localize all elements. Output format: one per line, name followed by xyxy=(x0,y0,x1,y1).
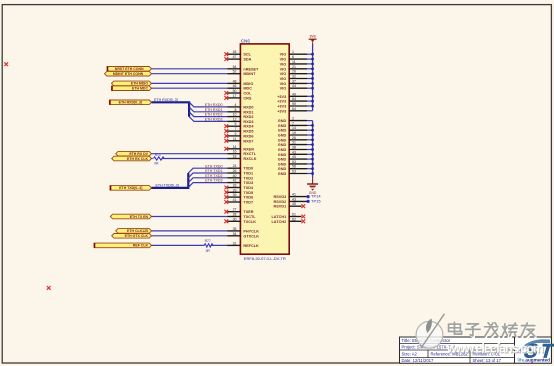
svg-text:30: 30 xyxy=(233,217,237,221)
svg-text:0R: 0R xyxy=(206,249,211,253)
pin 40 TXD2 (left) xyxy=(228,174,254,181)
svg-text:GND: GND xyxy=(278,119,287,123)
wire GND pin 14 to GND rail xyxy=(307,129,313,131)
svg-text:11: 11 xyxy=(233,137,237,141)
pin 41 RSVD3 (right) xyxy=(274,193,307,200)
bus entry + wire ETH TXD3 xyxy=(188,183,227,188)
resistor R77 0R (on REFCLK) xyxy=(152,239,228,253)
svg-text:54: 54 xyxy=(233,65,237,69)
wire VIO pin 11 to +3V3 rail xyxy=(307,63,313,65)
pin 39 TXD6 (left) xyxy=(228,193,254,200)
pin 11 VIO (right) xyxy=(280,60,307,67)
svg-text:35: 35 xyxy=(233,227,237,231)
svg-text:TXD1: TXD1 xyxy=(243,172,253,176)
pin 38 GND (right) xyxy=(278,146,307,153)
pin 26 TXD1 (left) xyxy=(228,169,254,176)
connector CN6 body xyxy=(240,44,289,254)
svg-text:24: 24 xyxy=(233,164,237,168)
no-connect X (floating, lower left) xyxy=(47,286,51,290)
pin 11 RXD7 (left) xyxy=(228,137,254,144)
resistor R71 0R (on RXCLK) xyxy=(152,153,228,165)
pin 16 RXCTL (left) xyxy=(228,150,257,157)
svg-text:12: 12 xyxy=(233,117,237,121)
pin 33 TXD4 (left) xyxy=(228,184,254,191)
svg-text:REF CLK: REF CLK xyxy=(133,244,149,248)
bus entry + wire ETH RXD1 xyxy=(189,107,227,112)
svg-text:63: 63 xyxy=(292,170,296,174)
svg-text:RXD7: RXD7 xyxy=(243,139,253,143)
pin 58 GND (right) xyxy=(278,165,307,172)
svg-text:11: 11 xyxy=(292,60,296,64)
pin 10 RXD2 (left) xyxy=(228,113,254,120)
svg-text:32: 32 xyxy=(292,75,296,79)
pin 12 RXD3 (left) xyxy=(228,117,254,124)
watermark logo circle xyxy=(416,314,444,349)
pin 19 GND (right) xyxy=(278,131,307,138)
net label ETH TXD3 xyxy=(205,179,222,183)
wire ETH MDIO to MDIO xyxy=(152,82,228,84)
svg-text:Sheet: 13 of 17: Sheet: 13 of 17 xyxy=(473,358,502,363)
wire GND pin 53 to GND rail xyxy=(307,163,313,165)
wire VIO pin 37 to +3V3 rail xyxy=(307,82,313,84)
svg-text:RXER: RXER xyxy=(243,147,254,151)
svg-text:MDIO: MDIO xyxy=(243,82,253,86)
bus entry + wire ETH RXD0 xyxy=(189,102,227,107)
svg-text:TXD4: TXD4 xyxy=(243,186,254,190)
wire VIO pin 26 to +3V3 rail xyxy=(307,73,313,75)
ST logo caption life.augmented xyxy=(518,357,551,362)
pin 44 VIO (right) xyxy=(280,84,307,91)
svg-text:VIO: VIO xyxy=(280,77,287,81)
no-connect X on pin 5 RXD4 xyxy=(224,124,228,128)
svg-text:REFCLK: REFCLK xyxy=(243,244,259,248)
svg-text:26: 26 xyxy=(292,70,296,74)
svg-text:RXCTL: RXCTL xyxy=(243,152,256,156)
svg-text:14: 14 xyxy=(233,145,237,149)
svg-text:17: 17 xyxy=(233,94,237,98)
svg-text:27: 27 xyxy=(233,208,237,212)
wire GND pin 63 to GND rail xyxy=(307,173,313,175)
svg-text:4: 4 xyxy=(235,103,237,107)
svg-text:6: 6 xyxy=(292,55,294,59)
svg-text:3V3: 3V3 xyxy=(310,35,316,39)
pin 4 RXD0 (left) xyxy=(228,103,254,110)
svg-text:59: 59 xyxy=(292,102,296,106)
svg-text:7: 7 xyxy=(235,127,237,131)
no-connect X on pin 30 TXCLK xyxy=(224,219,228,223)
svg-text:+3V3: +3V3 xyxy=(277,109,286,113)
svg-text:VIO: VIO xyxy=(280,72,287,76)
junctions on +3V3 rail xyxy=(311,53,313,107)
pin 54 +3V3 (right) xyxy=(277,97,307,104)
wire GND pin 43 to GND rail xyxy=(307,153,313,155)
svg-text:ETH RXD2: ETH RXD2 xyxy=(205,113,223,117)
refdes CN6 xyxy=(241,38,251,43)
svg-text:GND: GND xyxy=(278,158,287,162)
wire ETH GTX CLK to GTXCLK xyxy=(152,235,228,237)
svg-text:34: 34 xyxy=(233,232,237,236)
svg-text:ETH CLK125: ETH CLK125 xyxy=(127,229,148,233)
svg-text:8: 8 xyxy=(235,108,237,112)
svg-text:ETH RXD3: ETH RXD3 xyxy=(205,118,223,122)
wire GND pin 58 to GND rail xyxy=(307,168,313,170)
no-connect X on pin 27 TXER xyxy=(224,210,228,214)
net label ETH CLK125 xyxy=(116,229,152,234)
svg-text:RXD2: RXD2 xyxy=(243,115,253,119)
wire GND pin 31 to GND rail xyxy=(307,144,313,146)
test point TP15 on pin 43 RSVD2 xyxy=(307,198,322,203)
pin 50 COL (left) xyxy=(228,89,253,96)
svg-text:RXD6: RXD6 xyxy=(243,134,253,138)
svg-text:58: 58 xyxy=(292,165,296,169)
pin 9 RXD6 (left) xyxy=(228,132,254,139)
wire VIO pin 32 to +3V3 rail xyxy=(307,78,313,80)
svg-text:RXD1: RXD1 xyxy=(243,110,253,114)
svg-text:TXD5: TXD5 xyxy=(243,191,253,195)
wire GND rail vertical xyxy=(312,121,314,178)
wire GND pin 2 to GND rail xyxy=(307,120,313,122)
svg-text:GTXCLK: GTXCLK xyxy=(243,234,259,238)
svg-text:RSVD3: RSVD3 xyxy=(274,195,287,199)
svg-text:GND: GND xyxy=(278,143,287,147)
svg-text:ETH RXD[0..3]: ETH RXD[0..3] xyxy=(119,101,143,105)
svg-text:RXCLK: RXCLK xyxy=(243,157,256,161)
pin 7 GND (right) xyxy=(278,121,307,128)
pin 49 GND (right) xyxy=(278,155,307,162)
pin 21 VIO (right) xyxy=(280,65,307,72)
svg-text:39: 39 xyxy=(233,193,237,197)
svg-text:nRESET: nRESET xyxy=(243,67,259,71)
svg-text:GND: GND xyxy=(278,172,287,176)
net label ETH TX EN xyxy=(110,214,151,219)
svg-text:LATCH2: LATCH2 xyxy=(271,220,286,224)
pin 42 TXD3 (left) xyxy=(228,179,254,186)
svg-text:Size: A2: Size: A2 xyxy=(402,352,418,357)
svg-text:7: 7 xyxy=(292,121,294,125)
no-connect X on pin 33 TXD4 xyxy=(224,186,228,190)
svg-text:ETH RX CLK: ETH RX CLK xyxy=(127,157,148,161)
svg-text:PHYCLK: PHYCLK xyxy=(243,229,259,233)
svg-text:38: 38 xyxy=(292,146,296,150)
svg-text:GND: GND xyxy=(309,191,317,195)
svg-text:TXCLK: TXCLK xyxy=(243,220,256,224)
svg-text:TXD2: TXD2 xyxy=(243,176,253,180)
svg-text:9: 9 xyxy=(235,132,237,136)
pin 52 MDINT (left) xyxy=(228,70,257,77)
svg-text:0R: 0R xyxy=(154,162,159,166)
pin 45 SCL (left) xyxy=(228,50,252,57)
wire +3V3 pin 49 to +3V3 rail xyxy=(307,95,313,97)
svg-text:VIO: VIO xyxy=(280,87,287,91)
ST logo xyxy=(518,339,554,362)
no-connect X on pin 62 LATCH2 xyxy=(301,219,305,223)
svg-text:44: 44 xyxy=(292,84,296,88)
pin 43 GND (right) xyxy=(278,150,307,157)
no-connect X on pin 7 RXD5 xyxy=(224,129,228,133)
no-connect X on pin 9 RXD6 xyxy=(224,134,228,138)
pin 64 +3V3 (right) xyxy=(277,107,307,114)
svg-text:CRS: CRS xyxy=(243,96,251,100)
svg-text:14: 14 xyxy=(292,126,296,130)
svg-text:TXER: TXER xyxy=(243,210,253,214)
title block text: Date / Sheet xyxy=(402,358,502,363)
svg-text:ETH TXD2: ETH TXD2 xyxy=(205,174,222,178)
net label ETH GTX CLK xyxy=(112,234,152,239)
svg-text:28: 28 xyxy=(233,213,237,217)
svg-text:54: 54 xyxy=(292,97,296,101)
svg-text:2: 2 xyxy=(292,117,294,121)
bus entry + wire ETH TXD2 xyxy=(188,178,227,183)
net label ETH TXD2 xyxy=(205,174,222,178)
no-connect X on pin 50 COL xyxy=(224,91,228,95)
pin 34 GTXCLK (left) xyxy=(228,232,260,239)
svg-text:31: 31 xyxy=(292,141,296,145)
wire GND pin 38 to GND rail xyxy=(307,149,313,151)
pin 47 SDA (left) xyxy=(228,55,252,62)
wire +3V3 pin 64 to +3V3 rail xyxy=(307,110,313,112)
wire NRST ETH CONN to nRESET xyxy=(152,68,228,70)
net label ETH RX CLK xyxy=(112,156,152,161)
svg-text:RXD5: RXD5 xyxy=(243,130,253,134)
wire GND pin 19 to GND rail xyxy=(307,134,313,136)
no-connect X on pin 29 TXD5 xyxy=(224,190,228,194)
pin 28 TXCTL (left) xyxy=(228,213,257,220)
watermark www.elecfans.com xyxy=(446,342,545,357)
bus entry + wire ETH RXD3 xyxy=(189,117,227,122)
svg-text:47: 47 xyxy=(233,55,237,59)
net label NRST ETH CONN xyxy=(107,67,152,72)
wire +3V3 pin 59 to +3V3 rail xyxy=(307,105,313,107)
no-connect X on pin 61 LATCH1 xyxy=(301,215,305,219)
svg-text:TXD3: TXD3 xyxy=(243,181,253,185)
no-connect X on pin 41 TXD7 xyxy=(224,200,228,204)
svg-text:ETH RXD1: ETH RXD1 xyxy=(205,108,223,112)
net label ETH RXD1 xyxy=(205,108,223,112)
pin 14 GND (right) xyxy=(278,126,307,133)
pin 31 REFCLK (left) xyxy=(228,241,260,248)
wire GND pin 26 to GND rail xyxy=(307,139,313,141)
svg-text:R77: R77 xyxy=(205,239,211,243)
svg-text:53: 53 xyxy=(292,160,296,164)
svg-text:ETH TXD[0..3]: ETH TXD[0..3] xyxy=(119,186,142,190)
svg-text:41: 41 xyxy=(292,193,296,197)
net label ETH TXD1 xyxy=(205,169,222,173)
svg-text:TXD0: TXD0 xyxy=(243,167,253,171)
svg-text:TXCTL: TXCTL xyxy=(243,215,256,219)
svg-text:ETH TXD3: ETH TXD3 xyxy=(205,179,222,183)
wire ETH CLK125 to PHYCLK xyxy=(152,230,228,232)
junctions on GND rail xyxy=(311,124,313,175)
svg-text:RXD3: RXD3 xyxy=(243,120,253,124)
pin 2 GND (right) xyxy=(278,117,307,124)
wire MDINT ETH CONN to MDINT xyxy=(152,73,228,75)
no-connect X on pin 14 RXER xyxy=(224,147,228,151)
power symbol +3V3 xyxy=(309,35,317,45)
svg-text:ETH GTX CLK: ETH GTX CLK xyxy=(125,234,149,238)
svg-text:48: 48 xyxy=(233,79,237,83)
net label ETH MDC xyxy=(112,86,152,91)
svg-text:64: 64 xyxy=(292,107,296,111)
pin 54 nRESET (left) xyxy=(228,65,260,72)
svg-text:ETH MDIO: ETH MDIO xyxy=(131,82,148,86)
wire ETH RX DV to RXCTL xyxy=(152,153,228,155)
wire ETH TX EN to TXCTL xyxy=(152,216,228,218)
svg-text:31: 31 xyxy=(233,241,237,245)
svg-text:TXD7: TXD7 xyxy=(243,201,253,205)
svg-text:MDC: MDC xyxy=(243,87,252,91)
svg-text:50: 50 xyxy=(233,89,237,93)
wire VIO pin 44 to +3V3 rail xyxy=(307,87,313,89)
svg-text:49: 49 xyxy=(292,155,296,159)
pin 37 VIO (right) xyxy=(280,79,307,86)
svg-text:29: 29 xyxy=(233,188,237,192)
net label ETH RX DV xyxy=(116,151,152,156)
ground symbol GND xyxy=(307,178,318,196)
svg-text:43: 43 xyxy=(292,150,296,154)
value ERF8-30-07.0-L-DV-TR xyxy=(244,256,286,261)
pin 29 TXD5 (left) xyxy=(228,188,254,195)
svg-text:RXD0: RXD0 xyxy=(243,105,253,109)
svg-text:10: 10 xyxy=(233,113,237,117)
svg-text:45: 45 xyxy=(292,202,296,206)
svg-text:RSVD1: RSVD1 xyxy=(274,205,287,209)
svg-text:MDINT: MDINT xyxy=(243,72,256,76)
pin 31 GND (right) xyxy=(278,141,307,148)
svg-text:ETH RX DV: ETH RX DV xyxy=(129,152,148,156)
pin 14 RXER (left) xyxy=(228,145,255,152)
svg-text:ETH MDC: ETH MDC xyxy=(132,87,148,91)
pin 63 GND (right) xyxy=(278,170,307,177)
pin 62 LATCH2 (right) xyxy=(271,217,301,224)
svg-text:16: 16 xyxy=(233,150,237,154)
no-connect X on pin 45 SCL xyxy=(224,52,228,56)
svg-text:GND: GND xyxy=(278,138,287,142)
svg-text:43: 43 xyxy=(292,197,296,201)
wire +3V3 rail vertical xyxy=(312,45,314,111)
svg-text:MDINT ETH CONN: MDINT ETH CONN xyxy=(113,72,144,76)
svg-text:ETH TX EN: ETH TX EN xyxy=(130,215,149,219)
svg-text:www.elecfans.com: www.elecfans.com xyxy=(446,342,544,356)
pin 45 RSVD1 (right) xyxy=(274,202,302,209)
pin 59 +3V3 (right) xyxy=(277,102,307,109)
svg-text:1: 1 xyxy=(292,50,294,54)
pin 30 TXCLK (left) xyxy=(228,217,257,224)
pin 6 VIO (right) xyxy=(280,55,307,62)
svg-text:ETH TXD0: ETH TXD0 xyxy=(205,164,222,168)
svg-text:52: 52 xyxy=(233,70,237,74)
pin 35 PHYCLK (left) xyxy=(228,227,260,234)
no-connect X on pin 17 CRS xyxy=(224,96,228,100)
wire GND pin 49 to GND rail xyxy=(307,158,313,160)
pin 26 GND (right) xyxy=(278,136,307,143)
pin 32 VIO (right) xyxy=(280,75,307,82)
bus name text ETH TXD[0..3] xyxy=(156,183,179,187)
no-connect X on pin 47 SDA xyxy=(224,57,228,61)
svg-text:life.augmented: life.augmented xyxy=(518,357,551,362)
svg-text:46: 46 xyxy=(233,84,237,88)
svg-text:SCL: SCL xyxy=(243,53,251,57)
net label ETH TXD0 xyxy=(205,164,222,168)
svg-text:TXD6: TXD6 xyxy=(243,196,253,200)
wire +3V3 pin 54 to +3V3 rail xyxy=(307,100,313,102)
net label REF CLK xyxy=(94,243,152,248)
no-connect X (floating, left margin) xyxy=(4,62,8,66)
svg-text:62: 62 xyxy=(292,217,296,221)
pin 49 +3V3 (right) xyxy=(277,92,307,99)
title block text: Size / Reference / Revision xyxy=(402,352,501,357)
svg-text:61: 61 xyxy=(292,213,296,217)
svg-text:26: 26 xyxy=(292,136,296,140)
bus entry + wire ETH TXD0 xyxy=(188,168,227,173)
svg-text:SDA: SDA xyxy=(243,58,251,62)
pin 41 TXD7 (left) xyxy=(228,198,254,205)
title block text: Project xyxy=(402,345,459,350)
svg-text:GND: GND xyxy=(278,167,287,171)
net label ETH RXD0 xyxy=(205,103,223,107)
pin 53 GND (right) xyxy=(278,160,307,167)
svg-text:Date: 12/11/2017: Date: 12/11/2017 xyxy=(402,358,434,363)
title block frame xyxy=(400,337,552,363)
pin 18 RXCLK (left) xyxy=(228,155,257,162)
pin 26 VIO (right) xyxy=(280,70,307,77)
svg-text:+3V3: +3V3 xyxy=(277,95,286,99)
wire GND pin 7 to GND rail xyxy=(307,124,313,126)
svg-text:LATCH1: LATCH1 xyxy=(271,215,286,219)
bus label ETH TXD[0..3] xyxy=(110,186,152,191)
wire VIO pin 6 to +3V3 rail xyxy=(307,58,313,60)
pin 46 MDC (left) xyxy=(228,84,253,91)
svg-text:GND: GND xyxy=(278,162,287,166)
svg-text:41: 41 xyxy=(233,198,237,202)
pin 5 RXD4 (left) xyxy=(228,122,255,129)
pin 27 TXER (left) xyxy=(228,208,254,215)
net label ETH RXD3 xyxy=(205,118,223,122)
svg-text:49: 49 xyxy=(292,92,296,96)
svg-text:RSVD2: RSVD2 xyxy=(274,200,287,204)
no-connect X on pin 11 RXD7 xyxy=(224,139,228,143)
no-connect X on pin 45 RSVD1 xyxy=(301,204,305,208)
bus label ETH RXD[0..3] xyxy=(109,100,151,105)
svg-text:VIO: VIO xyxy=(280,82,287,86)
svg-text:ETH RXD0: ETH RXD0 xyxy=(205,103,223,107)
svg-text:18: 18 xyxy=(233,155,237,159)
pin 61 LATCH1 (right) xyxy=(271,213,301,220)
svg-text:R71: R71 xyxy=(155,153,161,157)
pin 1 VIO (right) xyxy=(280,50,307,57)
net label ETH RXD2 xyxy=(205,113,223,117)
svg-text:+3V3: +3V3 xyxy=(277,105,286,109)
svg-text:VIO: VIO xyxy=(280,53,287,57)
bus ETH TXD[0..3] horizontal+vertical xyxy=(152,173,189,188)
svg-text:37: 37 xyxy=(292,79,296,83)
pin 17 CRS (left) xyxy=(228,94,252,101)
svg-text:GND: GND xyxy=(278,134,287,138)
bus name text ETH RXD[0..3] xyxy=(154,98,178,102)
svg-text:26: 26 xyxy=(233,169,237,173)
svg-text:ETH TXD1: ETH TXD1 xyxy=(205,169,222,173)
test point TP14 on pin 41 RSVD3 xyxy=(307,194,322,199)
svg-text:GND: GND xyxy=(278,124,287,128)
net label ETH MDIO xyxy=(112,81,152,86)
bus ETH RXD[0..3] horizontal+vertical xyxy=(152,102,190,116)
pin 8 RXD1 (left) xyxy=(228,108,254,115)
svg-text:33: 33 xyxy=(233,184,237,188)
svg-text:COL: COL xyxy=(243,92,252,96)
bus entry + wire ETH RXD2 xyxy=(189,112,227,117)
svg-text:+3V3: +3V3 xyxy=(277,100,286,104)
svg-text:ERF8-30-07.0-L-DV-TR: ERF8-30-07.0-L-DV-TR xyxy=(244,256,286,261)
pin 43 RSVD2 (right) xyxy=(274,197,307,204)
